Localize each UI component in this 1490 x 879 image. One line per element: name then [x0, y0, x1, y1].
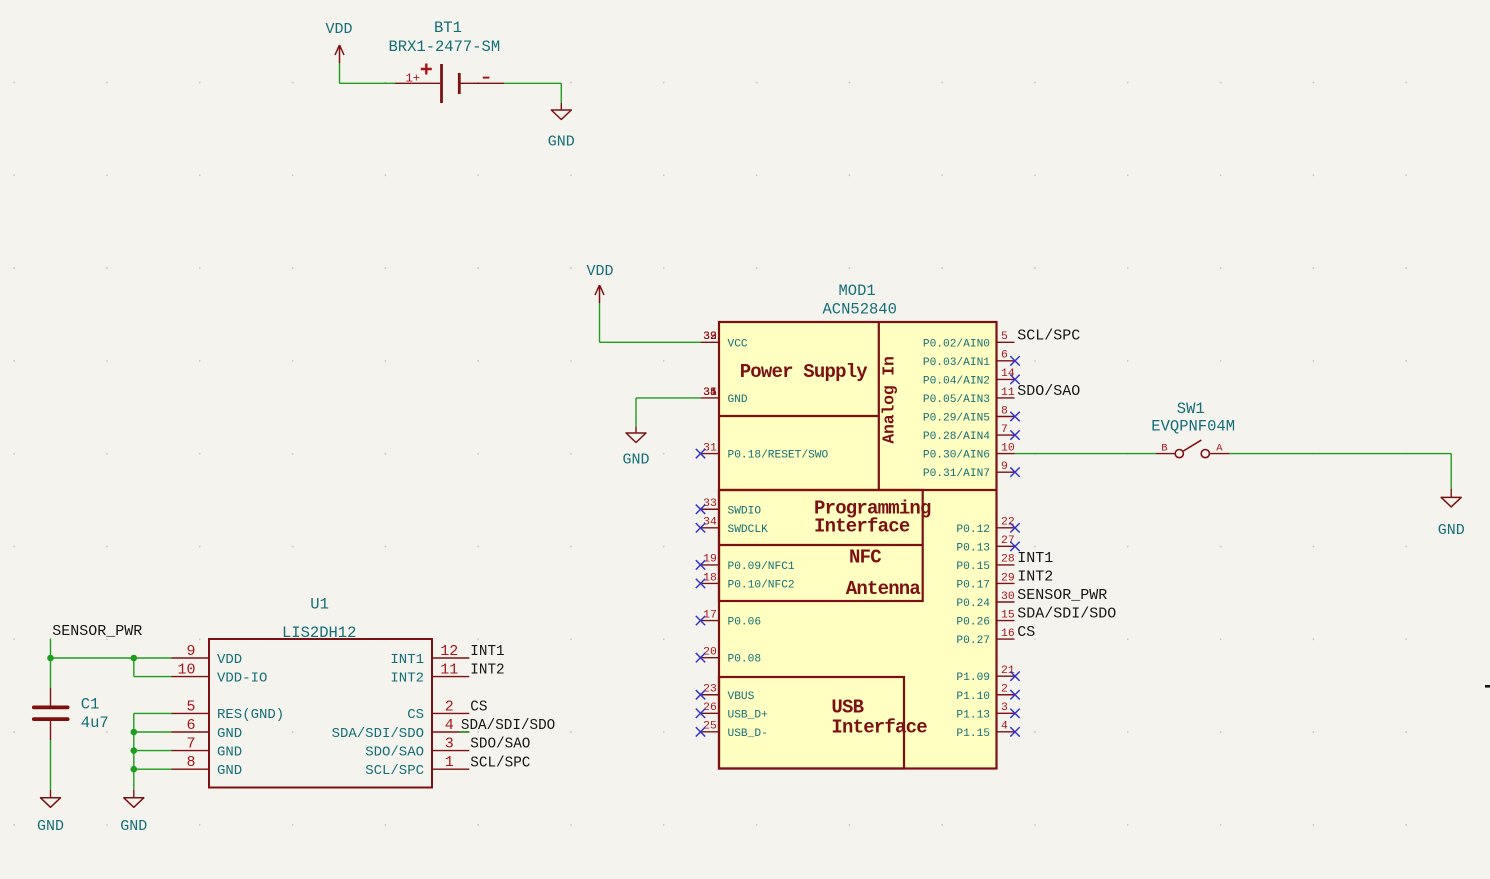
- svg-text:VDD: VDD: [217, 652, 242, 668]
- svg-text:5: 5: [1001, 331, 1008, 343]
- svg-text:SDO/SAO: SDO/SAO: [365, 744, 424, 760]
- svg-text:11: 11: [1001, 387, 1015, 399]
- svg-text:U1: U1: [310, 596, 329, 614]
- svg-text:INT2: INT2: [1017, 569, 1053, 586]
- svg-text:34: 34: [703, 517, 717, 529]
- svg-text:7: 7: [1001, 424, 1008, 436]
- svg-text:USB_D-: USB_D-: [728, 728, 768, 740]
- svg-text:7: 7: [186, 736, 195, 753]
- svg-text:19: 19: [703, 554, 717, 566]
- svg-text:INT1: INT1: [1017, 550, 1053, 567]
- svg-text:P0.24: P0.24: [956, 598, 990, 610]
- svg-text:29: 29: [1001, 572, 1015, 584]
- svg-text:18: 18: [703, 572, 717, 584]
- svg-text:P0.15: P0.15: [956, 561, 990, 573]
- svg-text:21: 21: [1001, 665, 1015, 677]
- svg-text:P0.30/AIN6: P0.30/AIN6: [923, 450, 990, 462]
- svg-text:NFC: NFC: [849, 547, 881, 569]
- svg-text:P0.06: P0.06: [728, 617, 762, 629]
- svg-text:C1: C1: [81, 696, 100, 714]
- svg-text:ACN52840: ACN52840: [823, 301, 897, 319]
- svg-text:SWDIO: SWDIO: [728, 505, 762, 517]
- svg-text:P0.29/AIN5: P0.29/AIN5: [923, 413, 990, 425]
- svg-text:INT2: INT2: [470, 663, 504, 679]
- svg-text:P0.17: P0.17: [956, 579, 990, 591]
- svg-text:1: 1: [445, 754, 454, 771]
- svg-text:33: 33: [703, 498, 717, 510]
- svg-text:9: 9: [1001, 461, 1008, 473]
- svg-text:6: 6: [1001, 350, 1008, 362]
- svg-text:33: 33: [703, 331, 717, 343]
- svg-text:VDD: VDD: [587, 263, 614, 280]
- svg-text:SDA/SDI/SDO: SDA/SDI/SDO: [1017, 606, 1116, 623]
- svg-text:6: 6: [186, 717, 195, 734]
- svg-text:3: 3: [445, 736, 454, 753]
- svg-text:P0.28/AIN4: P0.28/AIN4: [923, 431, 990, 443]
- svg-text:SDA/SDI/SDO: SDA/SDI/SDO: [461, 718, 555, 734]
- svg-text:P0.26: P0.26: [956, 617, 990, 629]
- svg-text:INT1: INT1: [470, 644, 504, 660]
- svg-text:P0.05/AIN3: P0.05/AIN3: [923, 394, 990, 406]
- svg-text:SDO/SAO: SDO/SAO: [1017, 383, 1080, 400]
- svg-text:GND: GND: [37, 818, 64, 835]
- svg-text:SCL/SPC: SCL/SPC: [365, 763, 424, 779]
- svg-text:B: B: [1161, 443, 1167, 455]
- svg-text:4: 4: [1001, 721, 1008, 733]
- svg-text:12: 12: [440, 643, 458, 660]
- svg-text:INT2: INT2: [390, 670, 424, 686]
- svg-text:VDD: VDD: [326, 21, 353, 38]
- svg-text:SWDCLK: SWDCLK: [728, 524, 769, 536]
- svg-text:11: 11: [440, 662, 458, 679]
- svg-text:SENSOR_PWR: SENSOR_PWR: [1017, 587, 1107, 604]
- svg-text:USB: USB: [831, 697, 863, 719]
- svg-text:25: 25: [703, 721, 717, 733]
- svg-text:P0.12: P0.12: [956, 524, 990, 536]
- svg-text:1+: 1+: [406, 72, 420, 86]
- svg-text:SDA/SDI/SDO: SDA/SDI/SDO: [332, 726, 424, 742]
- svg-text:31: 31: [703, 442, 717, 454]
- svg-text:22: 22: [1001, 517, 1015, 529]
- svg-text:35: 35: [703, 387, 717, 399]
- svg-text:Antenna: Antenna: [846, 578, 921, 600]
- svg-text:GND: GND: [728, 394, 748, 406]
- svg-text:SCL/SPC: SCL/SPC: [1017, 327, 1080, 344]
- svg-text:USB_D+: USB_D+: [728, 709, 769, 721]
- svg-text:P0.03/AIN1: P0.03/AIN1: [923, 357, 990, 369]
- svg-text:Interface: Interface: [814, 516, 910, 538]
- svg-text:CS: CS: [407, 707, 424, 723]
- svg-text:RES(GND): RES(GND): [217, 707, 284, 723]
- svg-text:P1.15: P1.15: [956, 728, 990, 740]
- svg-text:SENSOR_PWR: SENSOR_PWR: [52, 623, 142, 640]
- svg-text:GND: GND: [548, 134, 575, 151]
- svg-text:20: 20: [703, 646, 717, 658]
- svg-text:P1.13: P1.13: [956, 709, 990, 721]
- svg-text:GND: GND: [1438, 522, 1465, 539]
- svg-text:28: 28: [1001, 554, 1015, 566]
- svg-text:14: 14: [1001, 368, 1015, 380]
- svg-text:26: 26: [703, 702, 717, 714]
- svg-text:3: 3: [1001, 702, 1008, 714]
- svg-text:GND: GND: [217, 763, 242, 779]
- svg-text:Power Supply: Power Supply: [740, 361, 869, 383]
- svg-text:MOD1: MOD1: [839, 282, 876, 300]
- svg-text:23: 23: [703, 684, 717, 696]
- svg-text:BRX1-2477-SM: BRX1-2477-SM: [389, 38, 501, 56]
- svg-text:VCC: VCC: [728, 338, 748, 350]
- svg-text:10: 10: [177, 662, 195, 679]
- svg-text:INT1: INT1: [390, 652, 424, 668]
- svg-text:30: 30: [1001, 591, 1015, 603]
- svg-text:SCL/SPC: SCL/SPC: [470, 755, 530, 771]
- svg-text:VBUS: VBUS: [728, 691, 755, 703]
- svg-text:P1.09: P1.09: [956, 672, 990, 684]
- svg-text:GND: GND: [217, 744, 242, 760]
- svg-text:4u7: 4u7: [81, 714, 109, 732]
- svg-text:2: 2: [445, 698, 454, 715]
- svg-text:5: 5: [186, 698, 195, 715]
- svg-text:27: 27: [1001, 535, 1015, 547]
- svg-text:P0.04/AIN2: P0.04/AIN2: [923, 375, 990, 387]
- svg-text:16: 16: [1001, 628, 1015, 640]
- svg-text:GND: GND: [622, 452, 649, 469]
- svg-text:P0.31/AIN7: P0.31/AIN7: [923, 468, 990, 480]
- svg-text:VDD-IO: VDD-IO: [217, 670, 267, 686]
- svg-text:8: 8: [186, 754, 195, 771]
- svg-text:Analog In: Analog In: [880, 356, 899, 443]
- svg-text:P0.27: P0.27: [956, 635, 990, 647]
- svg-text:P0.09/NFC1: P0.09/NFC1: [728, 561, 795, 573]
- svg-text:9: 9: [186, 643, 195, 660]
- svg-text:GND: GND: [217, 726, 242, 742]
- svg-text:15: 15: [1001, 609, 1015, 621]
- svg-text:17: 17: [703, 609, 717, 621]
- svg-text:GND: GND: [120, 818, 147, 835]
- svg-text:P0.18/RESET/SWO: P0.18/RESET/SWO: [728, 450, 829, 462]
- svg-text:8: 8: [1001, 405, 1008, 417]
- svg-text:P0.02/AIN0: P0.02/AIN0: [923, 338, 990, 350]
- svg-text:SDO/SAO: SDO/SAO: [470, 737, 530, 753]
- svg-text:EVQPNF04M: EVQPNF04M: [1151, 418, 1235, 436]
- svg-text:CS: CS: [470, 700, 487, 716]
- svg-text:P0.13: P0.13: [956, 542, 990, 554]
- svg-text:A: A: [1216, 443, 1223, 455]
- svg-text:4: 4: [445, 717, 454, 734]
- svg-text:P1.10: P1.10: [956, 691, 990, 703]
- svg-text:CS: CS: [1017, 624, 1035, 641]
- svg-text:P0.08: P0.08: [728, 654, 762, 666]
- svg-text:SW1: SW1: [1177, 400, 1205, 418]
- svg-text:Interface: Interface: [831, 717, 927, 739]
- svg-text:BT1: BT1: [434, 19, 462, 37]
- svg-text:P0.10/NFC2: P0.10/NFC2: [728, 579, 795, 591]
- svg-text:2: 2: [1001, 684, 1008, 696]
- svg-text:10: 10: [1001, 442, 1015, 454]
